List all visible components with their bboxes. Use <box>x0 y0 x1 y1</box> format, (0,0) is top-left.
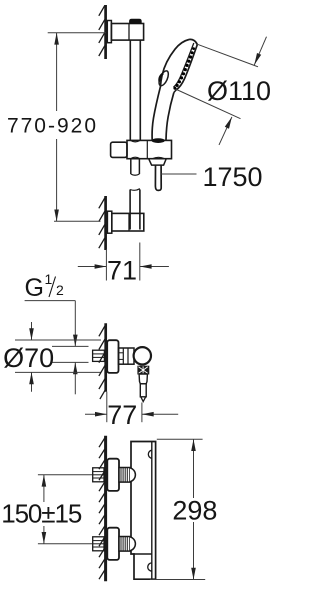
pause button on back <box>157 69 170 87</box>
wall hatching <box>99 326 106 399</box>
rail (below holder, broken) <box>130 159 132 174</box>
lower union: escutcheon <box>107 528 119 560</box>
lower union: hex nut <box>119 537 130 552</box>
bottom wall flange <box>107 211 111 233</box>
handle seat ellipse (dark) <box>152 138 165 143</box>
valve body / cartridge <box>119 348 135 364</box>
dimension 298 <box>150 439 205 579</box>
upper union: supply stub <box>93 468 104 482</box>
rail (bottom segment) <box>129 190 131 230</box>
upper union: escutcheon <box>107 459 119 491</box>
dimension Ø70 <box>15 322 101 392</box>
dimension 150±15 <box>38 475 92 544</box>
supply stub behind wall <box>93 350 105 361</box>
rail (upper segment) <box>129 40 131 140</box>
svg-text:77: 77 <box>107 400 137 430</box>
wall (top segment) <box>104 5 107 59</box>
svg-text:Ø70: Ø70 <box>3 343 54 373</box>
svg-text:G: G <box>25 274 44 302</box>
bottom rail bracket <box>112 213 144 231</box>
wall <box>104 436 107 581</box>
handle right edge <box>166 92 174 140</box>
svg-text:71: 71 <box>107 256 137 286</box>
svg-text:1750: 1750 <box>203 162 263 192</box>
G1/2 leader + small dimension <box>25 300 76 302</box>
dimension 770-920 <box>48 33 106 222</box>
svg-text:2: 2 <box>56 282 64 298</box>
lower union: supply stub <box>93 537 104 551</box>
nozzle dots on face <box>173 47 195 90</box>
upper union: hex nut <box>119 468 130 483</box>
svg-text:Ø110: Ø110 <box>207 76 271 106</box>
wall hatching (bottom) <box>99 198 105 248</box>
dimension 71 <box>78 243 169 281</box>
wall <box>104 323 107 391</box>
head bottom edge <box>174 90 177 93</box>
face notch arcs <box>148 450 151 458</box>
thermostat body <box>131 442 156 580</box>
ball joint <box>134 347 151 364</box>
knurled nut <box>138 366 149 374</box>
bottom outlet section <box>133 553 152 555</box>
escutcheon (edge-on) <box>107 340 118 373</box>
rail top cap (black) <box>130 19 142 23</box>
svg-text:770-920: 770-920 <box>7 115 98 138</box>
upper union: dome <box>130 468 136 482</box>
slider holder on rail <box>111 142 127 157</box>
wall hatching (top) <box>99 6 105 57</box>
top wall flange <box>107 21 111 43</box>
hose nut <box>149 159 167 165</box>
hose <box>155 165 161 190</box>
dimension Ø110 <box>177 37 267 145</box>
leader 1750 <box>161 173 197 175</box>
hand shower head <box>152 40 189 141</box>
top rail bracket <box>111 24 143 41</box>
svg-text:298: 298 <box>172 496 217 526</box>
svg-text:150±15: 150±15 <box>1 499 82 529</box>
spray face (edge-on band) <box>177 45 198 90</box>
lower union: dome <box>130 537 136 551</box>
handle stem + lever <box>139 374 147 384</box>
wall hatching <box>99 438 105 579</box>
svg-text:1: 1 <box>45 271 53 287</box>
wall (bottom segment) <box>104 196 107 250</box>
dimension 77 <box>85 403 178 423</box>
